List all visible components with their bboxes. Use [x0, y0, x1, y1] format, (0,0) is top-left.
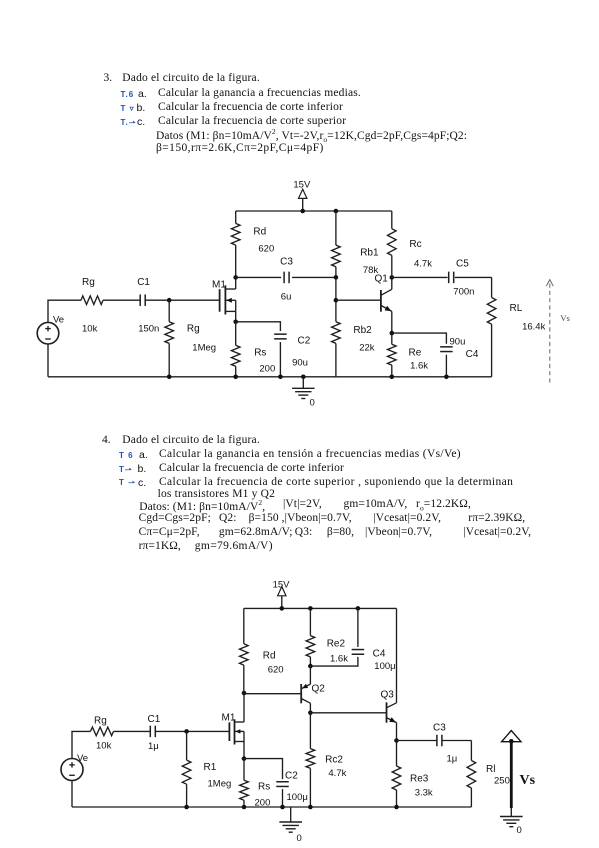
node M1 drain: [233, 275, 238, 280]
svg-text:Rg: Rg: [94, 716, 107, 727]
wire Ve bottom: [47, 344, 49, 377]
resistor Rd 620: [231, 211, 274, 277]
wire node to Q2 emitter: [309, 666, 311, 684]
node rail Rs (2): [242, 805, 247, 810]
node rail C4: [356, 606, 361, 611]
svg-text:C2: C2: [298, 336, 311, 347]
supply 15V circuit2: [273, 580, 291, 609]
svg-text:Rd: Rd: [263, 651, 276, 662]
svg-text:Rd: Rd: [253, 227, 266, 238]
wire Q2 base: [244, 693, 301, 695]
svg-text:4.7k: 4.7k: [414, 259, 432, 270]
voltage source Ve (2): [61, 753, 88, 781]
svg-text:1.6k: 1.6k: [330, 654, 348, 665]
svg-text:620: 620: [258, 244, 274, 255]
svg-text:C2: C2: [285, 771, 298, 782]
resistor R1 1Meg: [182, 731, 231, 807]
svg-text:Vs: Vs: [520, 773, 536, 788]
node Vs output annotation (dashed arrow): [546, 280, 570, 384]
node rail gnd: [301, 375, 306, 380]
node rail C2 (2): [280, 805, 285, 810]
wire C2 to rail: [279, 342, 281, 377]
problem 4 item b: [119, 465, 133, 474]
problem 3 datos: [156, 127, 467, 144]
resistor Re2 1.6k: [306, 608, 348, 666]
problem 4 datos line 4: [139, 540, 181, 552]
svg-text:Rb2: Rb2: [353, 325, 372, 336]
capacitor C1 150n: [137, 277, 159, 335]
wire C4 to rail: [445, 355, 447, 377]
svg-text:700n: 700n: [453, 287, 474, 298]
problem 4 datos line 1: [139, 498, 265, 513]
svg-text:Q3: Q3: [381, 690, 395, 701]
wire emitter row to C3: [397, 740, 437, 742]
wire Rg to C1 (2): [114, 730, 151, 732]
wire to Q1 base: [336, 299, 381, 301]
resistor Rl 250: [467, 741, 510, 808]
node rail Rs: [233, 375, 238, 380]
capacitor C2 90u: [274, 334, 311, 368]
problem 3 item c: [121, 118, 137, 127]
wire collector to C5: [392, 276, 448, 278]
resistor Rc 4.7k: [388, 211, 433, 277]
svg-text:C1: C1: [137, 277, 150, 288]
transistor Q3 (NPN): [381, 608, 397, 740]
resistor Re3 3.3k: [392, 741, 433, 808]
node rail Rg2: [167, 375, 172, 380]
svg-text:0: 0: [310, 398, 315, 409]
svg-text:C3: C3: [280, 257, 293, 268]
svg-text:3.3k: 3.3k: [415, 788, 433, 799]
ground circuit2: [279, 807, 302, 844]
svg-text:Re3: Re3: [410, 774, 429, 785]
svg-text:RL: RL: [510, 303, 523, 314]
problem 4 item a: [119, 451, 134, 460]
transistor M1 (NMOS): [212, 277, 236, 321]
problem 4 datos line 2: [139, 512, 211, 524]
svg-text:1.6k: 1.6k: [410, 361, 428, 372]
svg-text:R1: R1: [204, 762, 217, 773]
svg-text:200: 200: [255, 798, 271, 809]
transistor Q2 (PNP): [301, 684, 325, 713]
svg-text:22k: 22k: [359, 343, 375, 354]
svg-text:100μ: 100μ: [374, 661, 395, 672]
transistor Q1 (NPN): [375, 274, 392, 334]
svg-text:620: 620: [268, 665, 284, 676]
problem 3 item b: [121, 104, 135, 113]
node Q2 collector: [308, 711, 313, 716]
node rail supply (2): [280, 606, 285, 611]
svg-text:Re2: Re2: [327, 639, 346, 650]
node Re bottom: [390, 375, 395, 380]
svg-text:Re: Re: [409, 348, 422, 359]
svg-text:Ve: Ve: [53, 314, 64, 325]
svg-text:15V: 15V: [273, 580, 291, 591]
svg-text:C5: C5: [456, 259, 469, 270]
resistor Rs 200: [231, 322, 275, 377]
node rail Rb1: [334, 209, 339, 214]
wire C3 to Rl: [442, 740, 471, 742]
wire C1 to M1 gate (2): [156, 730, 230, 732]
wire Ve top to input row: [48, 300, 81, 323]
svg-text:0: 0: [297, 833, 302, 844]
svg-text:4.7k: 4.7k: [328, 768, 346, 779]
svg-text:200: 200: [259, 364, 275, 375]
node Re3 bottom: [394, 805, 399, 810]
svg-text:C4: C4: [373, 649, 386, 660]
wire C1 to M1 gate: [145, 299, 219, 301]
svg-text:10k: 10k: [96, 741, 112, 752]
svg-text:90u: 90u: [450, 337, 466, 348]
resistor Rg 1Meg: [165, 300, 216, 377]
wire C2 to rail (2): [282, 789, 284, 807]
wire C4 bottom to Re2 node: [310, 657, 358, 666]
resistor Rs 200 (2): [240, 759, 271, 809]
capacitor C5 700n: [449, 259, 475, 298]
problem 4 item c: [119, 478, 136, 487]
resistor Rg 10k: [81, 277, 103, 335]
wire drain to C3: [236, 276, 281, 278]
svg-text:C4: C4: [466, 349, 479, 360]
ground at Vs output: [500, 808, 523, 836]
wire C3 to Rb node: [292, 276, 336, 278]
svg-text:Rg: Rg: [82, 277, 95, 288]
resistor Rd 620 (2): [240, 608, 284, 693]
svg-text:C1: C1: [148, 714, 161, 725]
node M1 source (2): [242, 756, 247, 761]
wire Q2 collector to Q3 base: [310, 712, 386, 714]
svg-text:Rb1: Rb1: [360, 248, 379, 259]
resistor Rb1 78k: [332, 211, 379, 277]
capacitor C3 1u (2): [433, 723, 457, 765]
problem 4 datos line 3: [139, 526, 200, 538]
wire Rg to C1: [103, 299, 140, 301]
resistor Rg 10k (2): [91, 716, 114, 752]
svg-text:1Meg: 1Meg: [208, 779, 232, 790]
node input/Rg2: [167, 298, 172, 303]
resistor RL 16.4k: [487, 277, 545, 376]
resistor Rb2 22k: [332, 277, 375, 376]
node C4 bottom: [444, 375, 449, 380]
svg-text:1μ: 1μ: [148, 741, 159, 752]
problem 4 heading: [102, 434, 111, 446]
node Re2/C4: [308, 664, 313, 669]
capacitor C4 100u wire: [357, 608, 359, 647]
wire bottom rail circuit1: [48, 376, 492, 378]
node rail Re2: [308, 606, 313, 611]
problem 3 heading: [104, 72, 113, 84]
wire Ve bottom (2): [71, 781, 73, 808]
resistor Rc2 4.7k: [306, 713, 347, 807]
svg-text:1μ: 1μ: [447, 754, 458, 765]
svg-text:Rg: Rg: [187, 324, 200, 335]
wire source to C2: [236, 322, 281, 331]
svg-text:Q1: Q1: [375, 274, 389, 285]
capacitor C4 90u: [440, 337, 479, 361]
node Q3 emitter: [394, 738, 399, 743]
node M1 source: [233, 320, 238, 325]
svg-text:10k: 10k: [82, 324, 98, 335]
svg-text:Rs: Rs: [258, 782, 270, 793]
node rail R1 (2): [184, 805, 189, 810]
capacitor C4 100u: [352, 649, 396, 673]
ground circuit1: [292, 377, 315, 409]
node rail supply: [300, 209, 305, 214]
svg-text:C3: C3: [433, 723, 446, 734]
voltage source Ve: [37, 314, 64, 344]
svg-text:6u: 6u: [281, 292, 292, 303]
problem 3 item a: [121, 90, 135, 99]
svg-text:Vs: Vs: [560, 313, 569, 323]
wire top rail circuit1: [236, 210, 392, 212]
svg-text:90u: 90u: [292, 358, 308, 369]
svg-text:Ve: Ve: [77, 753, 88, 764]
node rail C2: [278, 375, 283, 380]
svg-text:M1: M1: [212, 280, 226, 291]
svg-text:Q2: Q2: [312, 684, 326, 695]
node input/R1 (2): [184, 729, 189, 734]
svg-text:16.4k: 16.4k: [522, 322, 545, 333]
wire Ve top to input row (2): [72, 731, 91, 758]
svg-text:250: 250: [494, 776, 510, 787]
wire source to C2 (2): [244, 759, 283, 780]
svg-text:150n: 150n: [138, 324, 159, 335]
wire bottom rail circuit2: [72, 806, 471, 808]
svg-text:Rs: Rs: [254, 348, 266, 359]
svg-text:Rc: Rc: [409, 239, 421, 250]
wire emitter to C4: [392, 333, 447, 344]
wire C5 to RL: [455, 276, 492, 278]
capacitor C1 1u (2): [148, 714, 161, 752]
svg-text:1Meg: 1Meg: [192, 343, 216, 354]
node rail Rc2 (2): [308, 805, 313, 810]
transistor M1 (NMOS) circuit 2: [222, 693, 245, 759]
svg-text:100μ: 100μ: [287, 792, 308, 803]
resistor Re 1.6k: [388, 333, 429, 377]
svg-text:M1: M1: [222, 713, 236, 724]
capacitor C2 100u (2): [276, 771, 308, 804]
node M1 drain (2): [242, 691, 247, 696]
node Q1 collector: [390, 275, 395, 280]
node base branch: [334, 298, 339, 303]
node Vs output annotation (bold arrow): [502, 731, 536, 809]
capacitor C3 6u: [280, 257, 293, 303]
supply 15V circuit1: [293, 180, 311, 212]
node Q1 emitter: [390, 331, 395, 336]
svg-text:Rl: Rl: [486, 764, 495, 775]
svg-text:15V: 15V: [293, 180, 311, 191]
svg-text:0: 0: [517, 825, 522, 836]
wire top rail circuit2: [244, 607, 397, 609]
svg-text:Rc2: Rc2: [325, 755, 343, 766]
node Rb1/Rb2/C3: [334, 275, 339, 280]
